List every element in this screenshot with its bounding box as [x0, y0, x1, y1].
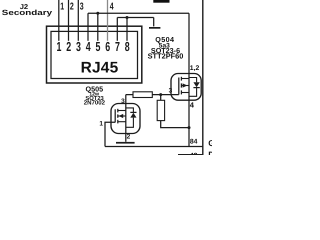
junction pin5/H1 — [96, 12, 99, 15]
svg-text:D: D — [208, 150, 212, 155]
svg-text:4: 4 — [190, 101, 195, 110]
wire bottom rail to port 84 — [105, 146, 203, 148]
svg-text:1: 1 — [57, 39, 62, 54]
wire pin1 — [58, 0, 60, 41]
svg-text:1: 1 — [99, 121, 103, 128]
Q505 channel segments — [117, 109, 119, 113]
connector J2 RJ45 outer box — [47, 26, 142, 83]
wire bus H1 from pin4 to Q504 source — [88, 12, 189, 14]
svg-text:2: 2 — [66, 39, 71, 54]
wire pin3 — [77, 0, 79, 41]
svg-text:1: 1 — [60, 1, 64, 12]
transistor Q505 text block — [84, 84, 106, 106]
terminal bar — [149, 27, 160, 29]
svg-text:4: 4 — [86, 39, 91, 54]
junction on Q504 drain wire — [188, 126, 191, 129]
ground bar — [116, 142, 135, 144]
svg-text:G: G — [208, 138, 212, 148]
svg-text:5: 5 — [96, 39, 101, 54]
Q504 body diode — [189, 78, 197, 83]
transistor Q504 text block — [148, 35, 184, 61]
Q505 substrate stub with arrow — [118, 115, 126, 117]
svg-text:84: 84 — [190, 139, 198, 146]
wire bus H2 from pin7 — [117, 17, 153, 19]
wire pin2 — [68, 0, 70, 41]
Q505 source stub — [118, 121, 126, 123]
Q504 substrate stub with arrow — [181, 85, 189, 87]
transistor Q505 body — [111, 104, 140, 134]
Q505 gate bar — [114, 109, 116, 122]
svg-text:3: 3 — [80, 1, 84, 12]
svg-text:3: 3 — [76, 39, 81, 54]
svg-text:8: 8 — [125, 39, 130, 54]
wire Q504 source to H1 and drain down to rail — [188, 13, 190, 146]
svg-text:7: 7 — [115, 39, 120, 54]
svg-text:2: 2 — [127, 133, 131, 140]
connector label J2 Secondary — [2, 4, 53, 17]
wire port 43 stub — [178, 154, 203, 156]
Q505 body diode — [126, 108, 134, 113]
svg-text:Secondary: Secondary — [2, 8, 53, 17]
svg-text:2N7002: 2N7002 — [84, 99, 106, 106]
svg-text:6: 6 — [105, 39, 110, 54]
svg-text:RJ45: RJ45 — [81, 59, 119, 76]
svg-text:STT2PF60: STT2PF60 — [148, 52, 184, 61]
svg-text:1,2: 1,2 — [190, 65, 200, 72]
Q505 drain stub — [118, 110, 126, 112]
svg-text:4: 4 — [110, 1, 114, 12]
wire pin4 drop — [87, 13, 89, 41]
wire vertical resistor to Q504 drain wire — [161, 121, 189, 128]
Q504 gate bar — [178, 78, 180, 95]
wire pin7 drop — [116, 18, 118, 41]
Q504 drain stub — [181, 78, 189, 80]
resistor R (vertical) — [157, 100, 164, 120]
wire stub to terminal — [153, 18, 155, 27]
wire Q505 drain/source vertical — [125, 95, 127, 142]
Q504 source stub — [181, 92, 189, 94]
Q504 channel segments — [180, 77, 182, 81]
junction gate net / vertical resistor — [159, 93, 162, 96]
wire pin5 drop — [97, 13, 99, 41]
wire Q505 gate to rail — [105, 122, 115, 146]
transistor Q504 body — [171, 74, 201, 101]
wire pin8 drop — [126, 18, 128, 41]
clipped text fragment at top edge — [153, 0, 169, 3]
pin numbers 1-8 — [57, 39, 130, 54]
wire gate net Q505 drain to Q504 gate — [126, 94, 179, 96]
resistor R (horizontal) — [133, 92, 152, 98]
wire pin6 gray — [107, 0, 109, 41]
svg-text:2: 2 — [70, 1, 74, 12]
resistor R (vertical) stub — [160, 95, 162, 101]
junction pin8/H2 — [126, 16, 129, 19]
svg-text:3: 3 — [169, 87, 173, 94]
connector J2 RJ45 inner box — [51, 31, 138, 78]
sheet boundary right — [202, 0, 204, 155]
